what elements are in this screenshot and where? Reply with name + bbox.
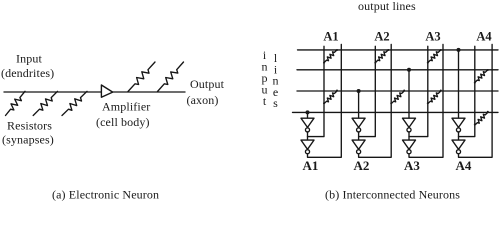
svg-text:A1: A1 bbox=[303, 158, 319, 173]
inverter A1a (first amplifier triangle, pointing down) bbox=[301, 118, 314, 127]
resistor: output synapse R4 bbox=[128, 62, 155, 92]
resistor: synapse at A4 left line x input line 4 bbox=[475, 112, 488, 125]
inverter A2a (first amplifier triangle, pointing down) bbox=[352, 118, 365, 127]
svg-text:A3: A3 bbox=[404, 158, 420, 173]
resistor: synapse at A3 left line x input line 3 bbox=[428, 91, 441, 104]
inverter A3b output bubble bbox=[407, 150, 411, 154]
svg-text:(axon): (axon) bbox=[187, 93, 219, 107]
node: neuron A1 input tap (junction dot on input line) bbox=[306, 110, 310, 114]
inverter A4b output bubble bbox=[456, 150, 460, 154]
resistor: synapse at A3 left line x input line 1 bbox=[428, 50, 441, 63]
svg-text:Input: Input bbox=[16, 52, 42, 66]
inverter A4b (second amplifier triangle, pointing down) bbox=[452, 140, 465, 149]
resistor: synapse R3 (input) bbox=[62, 91, 87, 115]
wire: A1a bubble to A1b input bbox=[307, 132, 309, 140]
svg-text:Resistors: Resistors bbox=[7, 119, 52, 133]
wire: A3a bubble to A3b input bbox=[408, 132, 410, 140]
wire: A4 inverted-output branch to left vertical output line bbox=[459, 46, 475, 136]
wire: input line 4 (horizontal) bbox=[293, 111, 499, 113]
inverter A1b output bubble bbox=[305, 150, 309, 154]
svg-text:A2: A2 bbox=[374, 30, 389, 44]
wire: A3 inverted-output branch to left vertical output line bbox=[409, 46, 428, 136]
wire: A1 output down, right and up the right vertical output line bbox=[308, 44, 342, 157]
wire: A1 input stub from input line down to first inverter bbox=[307, 112, 309, 118]
inverter A2a output bubble bbox=[357, 128, 361, 132]
inverter A3a output bubble bbox=[407, 128, 411, 132]
wire: A1 inverted-output branch to left vertical output line bbox=[308, 46, 325, 136]
resistor: synapse R1 (input) bbox=[6, 91, 26, 115]
wire: A4a bubble to A4b input bbox=[458, 132, 460, 140]
svg-text:A2: A2 bbox=[354, 158, 370, 173]
node: neuron A2 input tap (junction dot on input line) bbox=[357, 89, 361, 93]
inverter A3a (first amplifier triangle, pointing down) bbox=[403, 118, 416, 127]
inverter A2b output bubble bbox=[357, 150, 361, 154]
svg-text:output lines: output lines bbox=[358, 0, 416, 13]
op-amp: amplifier (cell body) triangle bbox=[101, 85, 112, 97]
resistor: synapse at A2 right line x input line 3 bbox=[391, 91, 404, 104]
inverter A1b (second amplifier triangle, pointing down) bbox=[301, 140, 314, 149]
svg-text:A4: A4 bbox=[476, 30, 492, 44]
wire: A2 output down, right and up the right vertical output line bbox=[359, 44, 392, 157]
wire: input line 2 (horizontal) bbox=[297, 69, 498, 71]
wire: input line 3 (horizontal) bbox=[297, 90, 498, 92]
wire: output axon line (right of amplifier) bbox=[113, 91, 185, 93]
resistor: synapse at A4 left line x input line 2 bbox=[475, 70, 488, 83]
resistor: synapse at A1 left line x input line 3 bbox=[324, 91, 337, 104]
inverter A1a output bubble bbox=[305, 128, 309, 132]
svg-text:A1: A1 bbox=[323, 30, 338, 44]
resistor: synapse at A1 left line x input line 1 bbox=[324, 50, 337, 63]
svg-text:(b) Interconnected Neurons: (b) Interconnected Neurons bbox=[325, 188, 460, 202]
wire: A3 output down, right and up the right vertical output line bbox=[409, 44, 443, 157]
node: neuron A4 input tap (junction dot on input line) bbox=[457, 48, 461, 52]
wire: input dendrite line (left of amplifier) bbox=[4, 91, 101, 93]
svg-text:s: s bbox=[273, 96, 278, 110]
svg-text:Output: Output bbox=[190, 77, 225, 91]
wire: A2 input stub from input line down to first inverter bbox=[358, 91, 360, 118]
resistor: output synapse R5 bbox=[158, 62, 184, 92]
wire: A3 input stub from input line down to first inverter bbox=[408, 70, 410, 118]
svg-text:A3: A3 bbox=[425, 30, 440, 44]
inverter A4a output bubble bbox=[456, 128, 460, 132]
resistor: synapse at A2 left line x input line 1 bbox=[375, 50, 388, 63]
wire: A2 inverted-output branch to left vertical output line bbox=[359, 46, 376, 136]
wire: input line 1 (horizontal) bbox=[298, 49, 499, 51]
node: small resistor end blobs (junction points) bbox=[323, 49, 489, 126]
svg-text:(synapses): (synapses) bbox=[2, 133, 54, 147]
svg-text:A4: A4 bbox=[456, 158, 472, 173]
svg-text:(cell body): (cell body) bbox=[96, 115, 150, 129]
wire: A2a bubble to A2b input bbox=[358, 132, 360, 140]
wire: A4 input stub from input line down to first inverter bbox=[458, 50, 460, 118]
svg-text:Amplifier: Amplifier bbox=[102, 100, 150, 114]
resistor: synapse R2 (input) bbox=[33, 91, 57, 115]
svg-text:(dendrites): (dendrites) bbox=[1, 66, 54, 80]
node: neuron A3 input tap (junction dot on input line) bbox=[407, 68, 411, 72]
inverter A3b (second amplifier triangle, pointing down) bbox=[403, 140, 416, 149]
inverter A4a (first amplifier triangle, pointing down) bbox=[452, 118, 465, 127]
svg-text:(a) Electronic Neuron: (a) Electronic Neuron bbox=[52, 188, 159, 202]
inverter A2b (second amplifier triangle, pointing down) bbox=[352, 140, 365, 149]
wire: A4 output down, right and up the right vertical output line bbox=[459, 44, 493, 157]
